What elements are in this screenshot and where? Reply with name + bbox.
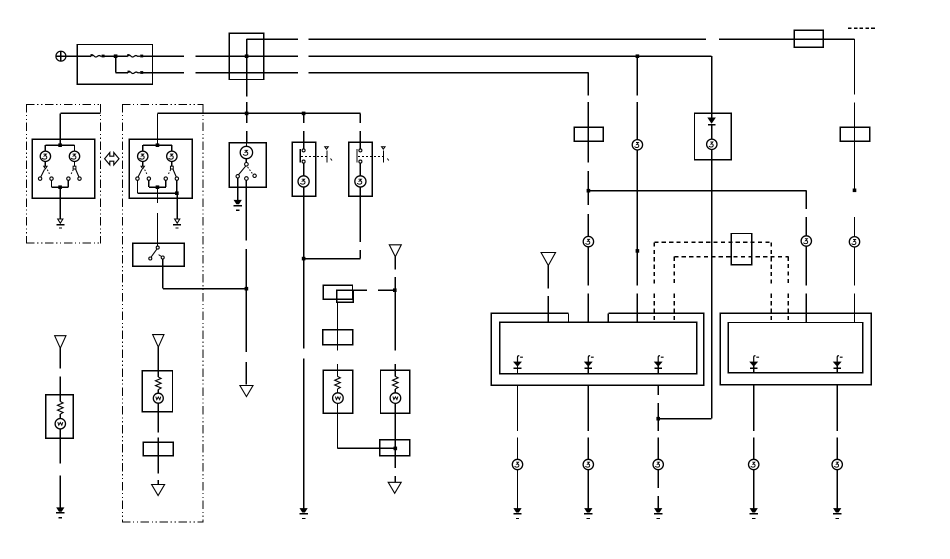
ground x658 bbox=[654, 509, 662, 519]
wire x60 to ground bbox=[59, 438, 61, 508]
output arrow x158 bbox=[152, 480, 165, 496]
wire feed y113 left stub bbox=[60, 113, 100, 139]
wire x395 upper bbox=[394, 257, 396, 371]
wire x337 lower bbox=[337, 364, 339, 370]
junction x395 y448 bbox=[394, 447, 398, 451]
ground x588 bbox=[584, 509, 592, 519]
fuse box bbox=[77, 44, 154, 85]
output arrow x395 bbox=[388, 482, 401, 493]
ground x303 bbox=[299, 509, 307, 519]
wire link y259 bbox=[304, 258, 361, 260]
ground x60 bbox=[56, 508, 64, 518]
lamp output wire x658 bbox=[657, 385, 659, 459]
splice circle x753 low bbox=[749, 459, 759, 469]
wire feed y113 main bbox=[157, 113, 360, 139]
fuse 3 bbox=[127, 71, 143, 74]
lamp unit x158 bbox=[142, 370, 174, 412]
wire right drop x854 bbox=[854, 39, 856, 236]
wire drop x303 bbox=[303, 113, 305, 142]
license plate lamp unit bbox=[229, 142, 267, 188]
junction in connector bbox=[245, 54, 249, 58]
wire x246 lower bbox=[245, 187, 247, 384]
wire battery to fuses row y56 bbox=[66, 55, 711, 57]
wire connector riser bbox=[246, 39, 248, 56]
diode box bbox=[694, 113, 732, 161]
input arrow x60 bbox=[55, 336, 66, 349]
junction x303 y259 bbox=[302, 257, 306, 261]
wire fuse split drop bbox=[115, 56, 117, 72]
dash-dot boundary rear lamp box bbox=[122, 104, 204, 523]
splice circle x588 low bbox=[583, 459, 593, 469]
twin tail lamp unit bbox=[129, 139, 193, 199]
connector double rect bbox=[323, 285, 355, 304]
tail light switch A bbox=[292, 142, 333, 197]
battery + terminal bbox=[56, 51, 66, 61]
fusible link 1 bbox=[90, 54, 105, 57]
wire x158 bbox=[157, 347, 159, 371]
wire connector drop bbox=[246, 56, 248, 142]
connector box C1 bbox=[229, 33, 265, 81]
splice circle x806 bbox=[801, 236, 811, 246]
lamp output wire x588 bbox=[587, 385, 589, 459]
wire x158 lower bbox=[157, 412, 159, 474]
lamp unit x337 bbox=[323, 370, 354, 415]
diode outputs right box bbox=[750, 356, 759, 373]
connector rect on x854 bbox=[840, 127, 871, 143]
wire x337 bbox=[337, 302, 339, 350]
junction y113 x246 bbox=[245, 112, 249, 116]
splice circle in diode box bbox=[707, 139, 717, 149]
connector rect on dashed links bbox=[731, 233, 753, 266]
junction mark x854 bbox=[853, 189, 857, 193]
wire x711 lower bbox=[711, 150, 713, 419]
junction x246 y289 bbox=[245, 287, 249, 291]
wire drop x360 bbox=[359, 113, 361, 142]
tail light switch B bbox=[348, 142, 389, 197]
connector box top right bbox=[794, 30, 825, 48]
dashed stub top right bbox=[848, 27, 877, 29]
wire x303 switch to junction bbox=[303, 196, 305, 258]
wire x588 lower bbox=[587, 191, 589, 237]
wire to ground x837 bbox=[836, 470, 838, 509]
wire x360 switch down bbox=[359, 196, 361, 258]
ground x753 bbox=[750, 509, 758, 519]
splice circle x658 low bbox=[653, 459, 663, 469]
wire drop x637 bbox=[636, 56, 638, 139]
wire x637 lower bbox=[636, 150, 638, 322]
output arrow x246 bbox=[240, 386, 253, 397]
wire row y73 bbox=[116, 72, 589, 74]
diode outputs left box bbox=[514, 356, 523, 374]
connector rect x337 bbox=[322, 329, 353, 346]
splice circle x588 bbox=[583, 236, 593, 246]
wire x806 lower bbox=[805, 246, 807, 322]
diode D1 bbox=[708, 113, 715, 139]
input arrow x158 bbox=[153, 335, 164, 348]
splice circle x854 bbox=[849, 237, 859, 247]
lamp output wire x753 bbox=[753, 385, 755, 460]
dash-dot boundary rear lamp option box bbox=[26, 104, 101, 244]
connector rect x395 bbox=[379, 439, 411, 456]
wire x588 to box bbox=[587, 247, 589, 322]
ground license lamp bbox=[234, 200, 242, 210]
input arrow x395 bbox=[389, 245, 401, 257]
junction y113 x303 bbox=[302, 112, 306, 116]
dashed link wire B bbox=[674, 257, 788, 323]
lamp unit x395 bbox=[380, 370, 411, 415]
ground wire license lamp bbox=[237, 187, 239, 200]
wire switch out bbox=[163, 266, 247, 289]
wire drop x588 bbox=[587, 73, 589, 191]
ground wire box1 bbox=[59, 187, 61, 219]
dashed link wire A bbox=[654, 242, 771, 322]
wire link y290 bbox=[353, 289, 395, 291]
lamp output wire x517 bbox=[517, 385, 519, 459]
junction mark x637 y251 bbox=[636, 249, 640, 253]
wire box2 center drop bbox=[156, 187, 158, 243]
twin tail lamp unit (option) bbox=[32, 139, 96, 199]
ground box1 bbox=[56, 219, 64, 228]
junction x395 y290 bbox=[393, 288, 397, 292]
wire x395 lower bbox=[394, 413, 396, 455]
wire x60 bbox=[59, 348, 61, 394]
junction x588 y191 bbox=[587, 189, 591, 193]
ground wire box2 bbox=[176, 193, 178, 219]
wire link x711 to x658 bbox=[658, 418, 711, 420]
rear combination lamp assembly left box bbox=[491, 313, 703, 385]
connector rect on x588 bbox=[574, 127, 604, 143]
ground x837 bbox=[833, 509, 841, 519]
lamp unit x60 bbox=[45, 394, 74, 439]
rear combination lamp assembly right box bbox=[720, 313, 872, 386]
splice circle x837 low bbox=[832, 459, 842, 469]
wire to ground x658 bbox=[657, 470, 659, 509]
ground box2 bbox=[173, 219, 181, 228]
junction y56 x637 bbox=[636, 54, 640, 58]
wire x337 to link bbox=[338, 413, 396, 448]
wire row y39 top bbox=[247, 38, 855, 40]
wire x303 to ground bbox=[303, 259, 305, 509]
lamp failure switch bbox=[132, 243, 185, 267]
wire drop x711 bbox=[711, 56, 713, 113]
wire to ground x753 bbox=[753, 470, 755, 509]
wire drop x806 bbox=[805, 191, 807, 236]
splice circle x637 bbox=[632, 140, 642, 150]
input arrow x548 bbox=[541, 253, 556, 323]
junction fuse split bbox=[114, 54, 118, 58]
lamp output wire x837 bbox=[836, 385, 838, 460]
equivalence arrow bbox=[105, 153, 119, 165]
junction x658 y419 bbox=[656, 417, 660, 421]
wire to ground x588 bbox=[587, 470, 589, 509]
connector rect x158 bbox=[143, 442, 175, 457]
wire x854 lower bbox=[854, 247, 856, 323]
fuse 2 bbox=[127, 54, 143, 57]
wire row y191 bbox=[588, 190, 806, 192]
wire to ground x517 bbox=[517, 470, 519, 509]
ground x517 bbox=[513, 509, 521, 519]
wire x395 bottom bbox=[394, 456, 396, 483]
splice circle x517 low bbox=[512, 459, 522, 469]
